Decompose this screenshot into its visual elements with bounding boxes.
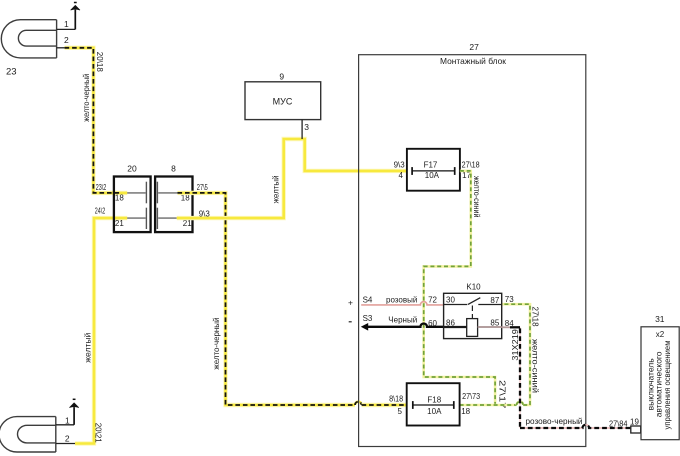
svg-text:2: 2 [64, 35, 69, 45]
connector 8 [155, 177, 192, 233]
svg-text:85: 85 [490, 319, 499, 328]
svg-text:23\2: 23\2 [96, 183, 107, 192]
svg-text:желтый: желтый [83, 333, 92, 363]
svg-text:27\84: 27\84 [609, 420, 628, 429]
K10 coil out (rose-grey) pin 85 [478, 326, 502, 328]
svg-text:27\73: 27\73 [462, 392, 480, 401]
svg-text:желто-черный: желто-черный [212, 318, 221, 370]
svg-text:желто-синий: желто-синий [531, 339, 540, 393]
switch 31 (automatic lighting control switch) [641, 327, 679, 440]
МУС pin 3 stub [301, 120, 303, 139]
K10 coil feed (black) pin 86 [444, 326, 467, 328]
svg-text:желто-синий: желто-синий [472, 176, 481, 218]
connector 20 pin 21 [127, 208, 146, 229]
svg-text:72: 72 [428, 296, 437, 305]
svg-text:87: 87 [490, 296, 499, 305]
svg-text:20: 20 [127, 164, 137, 174]
svg-text:31X219: 31X219 [511, 328, 520, 360]
wire 31X219 (pink-black dashed): K10 pin 84 down [502, 327, 520, 428]
svg-text:розово-черный: розово-черный [526, 417, 583, 426]
svg-text:18: 18 [461, 407, 470, 416]
fuse F18 10A [407, 383, 460, 425]
connector pin 19 of switch 31 [631, 426, 641, 433]
svg-text:30: 30 [446, 296, 455, 305]
wire 27\5 / 8\18 желто-черный: connector 8 pin 18 to fuse F18 pin 5 [178, 193, 407, 405]
wire 27\84 розово-черный: to switch 31 pin 19 [520, 425, 631, 428]
wire 20\21 желтый (yellow): bottom horn pin2 up to connector 20 pin 21 [75, 218, 127, 443]
svg-text:1: 1 [64, 19, 69, 29]
node S3 (-) black return with arrow [349, 321, 352, 323]
horn (bottom left) [0, 417, 56, 452]
svg-text:S3: S3 [363, 314, 373, 323]
svg-text:желто-черный: желто-черный [82, 74, 91, 122]
pin 1 of bottom horn [56, 424, 74, 426]
fuse F17 10A [407, 149, 460, 191]
svg-text:желтый: желтый [272, 175, 281, 203]
svg-text:9: 9 [279, 71, 284, 81]
label выключатель автоматического управления освещением [646, 341, 672, 430]
connector 8 pin 21 [157, 208, 176, 229]
K10 contact 30-87 [444, 298, 502, 305]
unit 9 МУС (light control module) [245, 82, 321, 120]
wire Черный: S3 arrow to K10 pin 60 [361, 323, 444, 331]
svg-text:5: 5 [397, 407, 402, 416]
svg-text:F18: F18 [427, 396, 441, 405]
svg-text:9\3: 9\3 [394, 161, 406, 170]
connector 20 pin 18 [127, 182, 146, 204]
svg-text:S4: S4 [363, 295, 373, 304]
svg-text:K10: K10 [466, 283, 481, 292]
svg-text:x2: x2 [656, 330, 665, 339]
svg-text:20\18: 20\18 [95, 52, 104, 73]
K10 coil [467, 319, 478, 337]
svg-text:Черный: Черный [388, 316, 417, 325]
pin 2 of bottom horn [56, 443, 75, 445]
svg-text:9\3: 9\3 [199, 209, 211, 218]
pin 1 of horn 23 [57, 28, 76, 30]
svg-text:60: 60 [428, 319, 437, 328]
svg-text:+: + [348, 298, 353, 308]
svg-text:27\18: 27\18 [462, 161, 480, 170]
mounting block 27 (Монтажный блок) [359, 55, 586, 447]
svg-text:8: 8 [171, 164, 176, 174]
svg-text:управления освещением: управления освещением [663, 341, 672, 430]
svg-text:86: 86 [446, 319, 455, 328]
svg-text:1: 1 [65, 416, 70, 426]
svg-text:10A: 10A [425, 171, 440, 180]
wire 27\18/27\17 желто-синий: F17 pin 17 down to junction near F18 [424, 171, 495, 405]
wire 27\18 желто-синий: F18 pin 18 to relay K10 pin 73 [460, 304, 530, 405]
svg-text:Монтажный блок: Монтажный блок [440, 56, 506, 66]
relay K10 [444, 293, 502, 338]
connector 20 [114, 177, 151, 233]
svg-text:розовый: розовый [386, 295, 417, 304]
svg-text:18: 18 [115, 193, 124, 202]
svg-text:20\21: 20\21 [93, 423, 102, 444]
svg-text:23: 23 [6, 67, 17, 78]
ground (body) for bottom horn [69, 399, 78, 425]
svg-text:27: 27 [469, 42, 479, 52]
svg-text:10A: 10A [427, 407, 442, 416]
svg-text:27\18: 27\18 [531, 307, 540, 328]
wire 20\18 желто-черный (yellow-black dashed): horn23 pin2 to connector 20 pin 18 [65, 48, 128, 193]
K10 armature link (dashed) [471, 306, 473, 319]
svg-text:73: 73 [505, 295, 514, 304]
svg-text:21: 21 [115, 219, 124, 228]
svg-text:2: 2 [65, 433, 70, 443]
svg-text:8\18: 8\18 [389, 395, 403, 404]
svg-text:4: 4 [398, 171, 403, 180]
svg-text:27\5: 27\5 [197, 183, 208, 192]
svg-text:МУС: МУС [273, 97, 293, 107]
connector 8 pin 18 [157, 182, 177, 204]
horn 23 (signal horn, top left) [1, 20, 56, 58]
svg-text:31: 31 [655, 314, 665, 324]
wire 9\3 желтый: connector 8 pin 21 to МУС pin 3 and fuse F17 pin 4 [177, 139, 407, 218]
svg-text:19: 19 [630, 417, 639, 426]
ground (body) for horn 23 [71, 3, 80, 30]
svg-text:24\2: 24\2 [95, 207, 106, 216]
svg-text:3: 3 [304, 122, 309, 132]
svg-text:F17: F17 [424, 161, 438, 170]
wire розовый: S4 to K10 pin 72 [361, 302, 443, 305]
pin 2 of horn 23 [57, 47, 65, 49]
